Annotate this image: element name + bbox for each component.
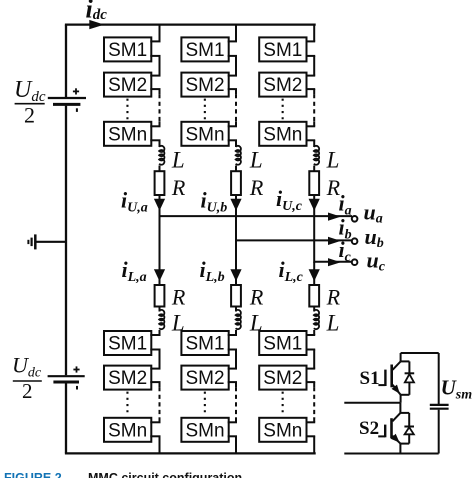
battery V1 short plate <box>53 103 80 106</box>
dotted ellipsis upper arm phase b <box>204 99 206 121</box>
wire inductor to resistor phase a upper <box>159 166 161 172</box>
submodule SM2 upper arm phase c <box>259 73 306 97</box>
arrow i_L,b <box>230 269 241 281</box>
wire SM2 to SMn phase a upper (dashed continuation) <box>150 88 160 90</box>
arrow i_b <box>328 237 341 245</box>
svg-text:SM1: SM1 <box>186 334 225 355</box>
svg-text:SM1: SM1 <box>108 334 147 355</box>
wire SMn to arm inductor phase a upper <box>150 139 160 141</box>
wire left DC bus upper segment <box>65 25 67 97</box>
arrow i_U,a <box>154 199 165 211</box>
svg-text:L: L <box>326 147 340 172</box>
resistor R upper arm phase a <box>155 171 165 195</box>
wire ground branch <box>36 241 66 243</box>
battery V1 plus sign <box>73 90 79 92</box>
inductor L upper arm phase a <box>159 146 164 165</box>
resistor R lower arm phase a <box>155 285 165 307</box>
wire junction to lower resistor phase c with arrow i_L,c <box>313 262 315 286</box>
wire submodule mid terminal rail <box>344 402 400 404</box>
resistor R upper arm phase b <box>231 171 241 195</box>
svg-text:SM2: SM2 <box>108 368 147 389</box>
wire resistor to junction phase b upper with arrow <box>235 195 237 241</box>
battery V1 top (Udc/2 source) long plate <box>48 97 86 99</box>
arrow i_a <box>328 213 341 221</box>
svg-text:R: R <box>171 285 186 310</box>
wire inductor to SM1 phase a lower <box>159 330 161 335</box>
submodule SMn lower arm phase a <box>104 418 151 442</box>
svg-text:L: L <box>326 311 340 336</box>
submodule SM1 lower arm phase c <box>259 331 306 355</box>
svg-text:L: L <box>249 147 263 172</box>
wire SM1 to SM2 phase c lower <box>306 349 316 351</box>
submodule SMn upper arm phase c <box>259 122 306 146</box>
wire SM1 to SM2 phase c upper <box>306 55 316 57</box>
wire SMn to bottom bus phase c <box>306 435 316 437</box>
wire SMn to bottom bus phase b <box>228 435 237 437</box>
inductor L lower arm phase c <box>314 310 319 329</box>
svg-text:SM2: SM2 <box>263 75 302 96</box>
battery V2 minus tick <box>76 386 78 390</box>
arrow i_L,a <box>154 269 165 281</box>
svg-text:SM2: SM2 <box>108 75 147 96</box>
battery V2 bottom (Udc/2 source) long plate <box>48 375 85 377</box>
wire junction to lower resistor phase a with arrow i_L,a <box>159 216 161 286</box>
dotted ellipsis upper arm phase c <box>282 99 284 121</box>
svg-text:SMn: SMn <box>263 124 302 145</box>
resistor R lower arm phase b <box>231 285 241 307</box>
wire junction to lower resistor phase b with arrow i_L,b <box>235 240 237 286</box>
dotted ellipsis lower arm phase a <box>126 392 128 417</box>
wire SM2 to SMn phase c upper (dashed continuation) <box>306 88 316 90</box>
svg-text:SM1: SM1 <box>263 40 302 61</box>
terminal circle phase a <box>352 216 358 222</box>
wire SMn to arm inductor phase c upper <box>306 139 316 141</box>
svg-text:SMn: SMn <box>263 420 302 441</box>
wire inductor to SM1 phase b lower <box>235 330 237 335</box>
battery V2 plus sign <box>73 369 79 371</box>
svg-text:SM2: SM2 <box>263 368 302 389</box>
diode antiparallel with S1 <box>401 360 410 362</box>
svg-text:SMn: SMn <box>108 124 147 145</box>
wire resistor to inductor phase b lower <box>235 306 237 312</box>
wire inductor to resistor phase c upper <box>313 166 315 172</box>
inductor L upper arm phase c <box>314 146 319 165</box>
wire resistor to inductor phase a lower <box>159 306 161 312</box>
wire bottom DC bus <box>65 452 316 454</box>
arrow i_L,c <box>309 269 320 281</box>
battery V2 short plate <box>53 381 79 384</box>
svg-text:R: R <box>326 285 341 310</box>
wire SM1 to SM2 phase b lower <box>228 349 237 351</box>
wire left DC bus lower segment <box>65 383 67 454</box>
wire SM2 to SMn phase c lower (dashed continuation) <box>306 381 316 383</box>
svg-text:R: R <box>171 175 186 200</box>
arrow i_c <box>328 258 341 266</box>
inductor L lower arm phase b <box>236 310 241 329</box>
submodule SMn lower arm phase b <box>181 418 228 442</box>
wire resistor to junction phase c upper with arrow <box>313 195 315 263</box>
wire resistor to junction phase a upper with arrow <box>159 195 161 217</box>
wire bus to SM1 phase c upper <box>313 25 315 42</box>
submodule SM1 lower arm phase a <box>104 331 151 355</box>
svg-text:SM2: SM2 <box>186 75 225 96</box>
wire top DC bus <box>65 23 316 25</box>
battery V1 minus tick <box>76 108 78 112</box>
wire SM1 to SM2 phase a upper <box>150 55 160 57</box>
wire bus to SM1 phase a upper <box>159 25 161 42</box>
wire SM2 to SMn phase b upper (dashed continuation) <box>228 88 237 90</box>
submodule SM2 lower arm phase c <box>259 366 306 390</box>
inductor L lower arm phase a <box>159 310 164 329</box>
submodule SMn upper arm phase b <box>181 122 228 146</box>
wire submodule right, cap upper lead <box>438 353 440 404</box>
wire cap lower lead <box>438 410 440 454</box>
svg-text:SM1: SM1 <box>263 334 302 355</box>
transistor S2 IGBT <box>399 403 401 413</box>
wire into SM1 phase c lower <box>306 334 316 336</box>
submodule SM2 lower arm phase a <box>104 366 151 390</box>
submodule SM1 lower arm phase b <box>181 331 228 355</box>
svg-text:L: L <box>171 147 185 172</box>
wire left DC bus middle segment <box>65 106 67 376</box>
wire submodule bottom rail <box>344 453 438 455</box>
arrow i_dc on top bus <box>89 20 104 29</box>
submodule SMn lower arm phase c <box>259 418 306 442</box>
caption FIGURE 2 <box>4 471 65 478</box>
wire inductor to SM1 phase c lower <box>313 330 315 335</box>
svg-text:SM1: SM1 <box>186 40 225 61</box>
submodule SM2 lower arm phase b <box>181 366 228 390</box>
svg-text:S1: S1 <box>360 368 380 389</box>
svg-text:SM2: SM2 <box>186 368 225 389</box>
submodule SM1 upper arm phase b <box>181 37 228 61</box>
node phase b output line <box>236 239 352 241</box>
inductor L upper arm phase b <box>236 146 241 165</box>
wire resistor to inductor phase c lower <box>313 306 315 312</box>
wire into SM1 phase a lower <box>150 334 160 336</box>
node phase c output line <box>314 261 352 263</box>
diode antiparallel with S2 <box>400 412 409 414</box>
wire SM1 to SM2 phase b upper <box>228 55 237 57</box>
wire SMn to bottom bus phase a <box>150 435 160 437</box>
svg-text:SMn: SMn <box>186 420 225 441</box>
wire inductor to resistor phase b upper <box>235 166 237 172</box>
capacitor C_sm <box>430 404 449 406</box>
fraction bar bottom <box>13 380 42 382</box>
svg-text:2: 2 <box>24 102 35 127</box>
resistor R lower arm phase c <box>309 285 319 307</box>
gate of S2 <box>384 425 386 438</box>
arrow i_U,b <box>230 199 241 211</box>
dotted ellipsis upper arm phase a <box>126 99 128 121</box>
submodule SM2 upper arm phase a <box>104 73 151 97</box>
wire into SM1 phase b lower <box>228 334 237 336</box>
ground symbol <box>34 234 37 249</box>
submodule SM2 upper arm phase b <box>181 73 228 97</box>
svg-text:SMn: SMn <box>108 420 147 441</box>
svg-text:2: 2 <box>22 379 33 403</box>
svg-text:SM1: SM1 <box>108 40 147 61</box>
resistor R upper arm phase c <box>309 171 319 195</box>
wire SM2 to SMn phase b lower (dashed continuation) <box>228 381 237 383</box>
fraction bar top <box>15 103 45 105</box>
transistor S1 IGBT <box>400 353 402 361</box>
arrow i_U,c <box>309 199 320 211</box>
svg-text:R: R <box>249 175 264 200</box>
submodule SMn upper arm phase a <box>104 122 151 146</box>
dotted ellipsis lower arm phase c <box>282 392 284 417</box>
wire SM2 to SMn phase a lower (dashed continuation) <box>150 381 160 383</box>
svg-text:R: R <box>249 285 264 310</box>
terminal circle phase c <box>352 259 358 265</box>
wire SMn to arm inductor phase b upper <box>228 139 237 141</box>
submodule SM1 upper arm phase c <box>259 37 306 61</box>
wire bus to SM1 phase b upper <box>235 25 237 42</box>
wire submodule top rail <box>401 352 439 354</box>
terminal circle phase b <box>352 238 358 244</box>
svg-text:S2: S2 <box>359 418 379 439</box>
svg-text:SMn: SMn <box>186 124 225 145</box>
node phase a output line <box>160 215 353 217</box>
wire SM1 to SM2 phase a lower <box>150 349 160 351</box>
gate of S1 <box>384 370 386 386</box>
submodule SM1 upper arm phase a <box>104 37 151 61</box>
dotted ellipsis lower arm phase b <box>204 392 206 417</box>
